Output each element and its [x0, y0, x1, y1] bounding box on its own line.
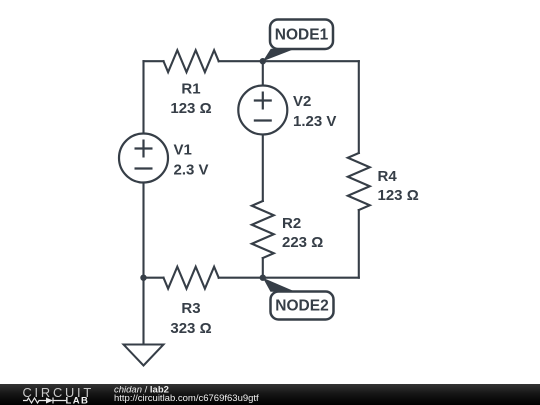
svg-text:LAB: LAB [66, 396, 90, 405]
svg-text:http://circuitlab.com/c6769f63: http://circuitlab.com/c6769f63u9gtf [114, 393, 259, 404]
